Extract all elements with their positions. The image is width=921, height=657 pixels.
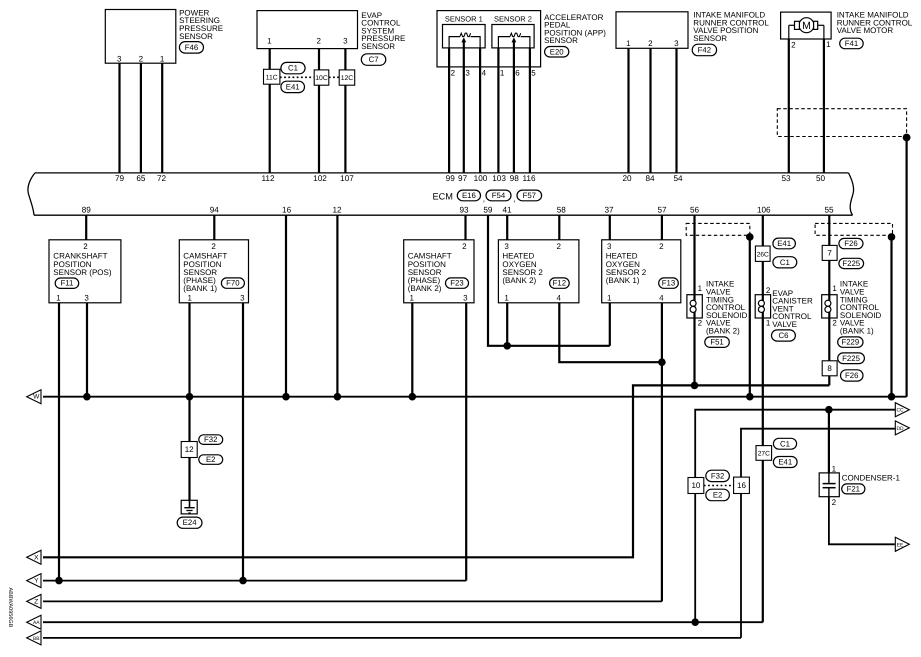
svg-text:C7: C7: [369, 55, 379, 64]
svg-text:2: 2: [211, 242, 216, 251]
svg-text:1: 1: [826, 40, 831, 49]
svg-text:65: 65: [136, 174, 146, 183]
svg-text:F26: F26: [845, 371, 858, 380]
svg-text:10C: 10C: [315, 75, 328, 82]
svg-text:72: 72: [157, 174, 167, 183]
svg-text:1: 1: [267, 36, 272, 45]
svg-text:59: 59: [483, 205, 493, 214]
svg-text:103: 103: [492, 174, 506, 183]
svg-text:3: 3: [465, 69, 470, 78]
svg-text:3: 3: [84, 294, 89, 303]
svg-text:20: 20: [622, 174, 632, 183]
svg-text:41: 41: [502, 205, 512, 214]
svg-text:1: 1: [832, 464, 837, 473]
svg-text:E16: E16: [462, 191, 476, 200]
svg-text:Y: Y: [34, 578, 39, 585]
svg-text:2: 2: [648, 39, 653, 48]
svg-text:84: 84: [645, 174, 655, 183]
svg-text:VALVE MOTOR: VALVE MOTOR: [837, 26, 894, 35]
svg-text:F225: F225: [842, 259, 860, 268]
svg-text:DD: DD: [896, 426, 904, 432]
svg-text:2: 2: [659, 242, 664, 251]
svg-text:16: 16: [737, 481, 746, 490]
svg-text:F32: F32: [711, 471, 724, 480]
svg-text:2: 2: [766, 286, 771, 295]
svg-text:1: 1: [698, 284, 703, 293]
svg-text:F12: F12: [553, 279, 566, 288]
svg-text:12: 12: [185, 445, 194, 454]
svg-text:SENSOR (POS): SENSOR (POS): [53, 268, 112, 277]
svg-text:93: 93: [459, 205, 469, 214]
svg-text:EE: EE: [897, 542, 904, 548]
svg-text:F13: F13: [662, 279, 675, 288]
svg-text:,: ,: [513, 195, 515, 204]
svg-text:16: 16: [282, 205, 292, 214]
svg-text:2: 2: [316, 36, 321, 45]
svg-text:F23: F23: [450, 279, 463, 288]
svg-text:8: 8: [827, 364, 832, 373]
svg-text:E2: E2: [206, 455, 216, 464]
svg-text:SENSOR: SENSOR: [179, 32, 213, 41]
svg-text:7: 7: [827, 249, 832, 258]
svg-text:Z: Z: [34, 598, 38, 605]
svg-text:12C: 12C: [341, 75, 354, 82]
svg-text:(BANK 2): (BANK 2): [408, 284, 442, 293]
svg-text:58: 58: [557, 205, 567, 214]
svg-text:SENSOR: SENSOR: [361, 42, 395, 51]
svg-text:6: 6: [515, 69, 520, 78]
svg-text:107: 107: [340, 174, 354, 183]
svg-text:(BANK 1): (BANK 1): [840, 326, 874, 335]
svg-text:94: 94: [210, 205, 220, 214]
svg-text:F51: F51: [710, 338, 723, 347]
svg-text:2: 2: [462, 242, 467, 251]
svg-text:98: 98: [510, 174, 520, 183]
svg-text:E2: E2: [713, 490, 723, 499]
svg-text:3: 3: [117, 55, 122, 64]
svg-text:ABBWA0956GB: ABBWA0956GB: [7, 588, 13, 628]
svg-text:F229: F229: [841, 338, 859, 347]
svg-text:ECM: ECM: [433, 191, 453, 201]
svg-text:F42: F42: [698, 45, 711, 54]
svg-text:3: 3: [504, 242, 509, 251]
svg-text:F70: F70: [226, 279, 240, 288]
svg-text:E24: E24: [183, 518, 198, 527]
svg-text:116: 116: [522, 174, 535, 183]
svg-text:2: 2: [139, 55, 144, 64]
svg-text:(BANK 2): (BANK 2): [706, 326, 740, 335]
svg-text:12: 12: [332, 205, 342, 214]
svg-text:C6: C6: [778, 331, 788, 340]
svg-text:3: 3: [343, 36, 348, 45]
svg-text:E20: E20: [550, 47, 565, 56]
svg-text:SENSOR: SENSOR: [544, 36, 578, 45]
svg-text:1: 1: [187, 294, 192, 303]
svg-text:F57: F57: [523, 191, 536, 200]
svg-text:4: 4: [556, 294, 561, 303]
svg-text:2: 2: [832, 319, 837, 328]
svg-text:X: X: [34, 554, 39, 561]
svg-text:89: 89: [82, 205, 92, 214]
svg-text:54: 54: [673, 174, 683, 183]
svg-text:1: 1: [409, 294, 414, 303]
svg-text:102: 102: [313, 174, 327, 183]
svg-text:11C: 11C: [266, 74, 278, 81]
svg-text:1: 1: [832, 284, 837, 293]
svg-text:AA: AA: [33, 620, 40, 626]
svg-text:79: 79: [115, 174, 125, 183]
svg-text:E41: E41: [286, 82, 300, 91]
svg-text:CC: CC: [896, 408, 904, 414]
svg-text:106: 106: [757, 205, 771, 214]
svg-text:1: 1: [626, 39, 631, 48]
svg-text:1: 1: [500, 69, 505, 78]
svg-text:3: 3: [240, 294, 245, 303]
svg-text:2: 2: [556, 242, 561, 251]
svg-text:1: 1: [766, 319, 771, 328]
svg-text:F225: F225: [842, 354, 860, 363]
svg-text:26C: 26C: [757, 251, 769, 258]
svg-text:C1: C1: [780, 439, 790, 448]
svg-text:F54: F54: [492, 191, 506, 200]
svg-text:3: 3: [674, 39, 679, 48]
svg-text:100: 100: [474, 174, 488, 183]
svg-text:27C: 27C: [758, 451, 770, 458]
svg-text:4: 4: [482, 69, 487, 78]
svg-text:1: 1: [504, 294, 509, 303]
svg-text:37: 37: [604, 205, 614, 214]
svg-text:1: 1: [160, 55, 165, 64]
svg-text:53: 53: [781, 174, 791, 183]
svg-text:F46: F46: [185, 43, 198, 52]
svg-text:97: 97: [458, 174, 468, 183]
svg-text:55: 55: [824, 205, 834, 214]
svg-text:C1: C1: [780, 258, 790, 267]
svg-text:BB: BB: [33, 636, 40, 642]
svg-text:57: 57: [657, 205, 667, 214]
svg-text:E41: E41: [778, 458, 792, 467]
svg-text:(BANK 1): (BANK 1): [606, 276, 640, 285]
svg-text:5: 5: [531, 69, 536, 78]
svg-text:F32: F32: [204, 435, 217, 444]
svg-text:F11: F11: [61, 279, 74, 288]
svg-text:2: 2: [791, 41, 796, 50]
svg-text:3: 3: [463, 294, 468, 303]
svg-text:F21: F21: [847, 484, 860, 493]
svg-text:W: W: [33, 394, 40, 401]
svg-text:112: 112: [261, 174, 274, 183]
svg-text:C1: C1: [288, 64, 298, 73]
svg-text:4: 4: [659, 294, 664, 303]
svg-text:2: 2: [698, 319, 703, 328]
svg-text:SENSOR 1: SENSOR 1: [445, 14, 483, 23]
svg-text:VALVE: VALVE: [772, 320, 797, 329]
svg-text:1: 1: [56, 294, 61, 303]
svg-text:(BANK 1): (BANK 1): [183, 284, 217, 293]
svg-text:2: 2: [832, 498, 837, 507]
svg-text:M: M: [802, 20, 811, 32]
svg-text:(BANK 2): (BANK 2): [502, 276, 536, 285]
svg-text:E41: E41: [777, 239, 791, 248]
svg-text:3: 3: [607, 242, 612, 251]
svg-text:,: ,: [483, 195, 485, 204]
svg-text:F26: F26: [844, 239, 857, 248]
svg-text:2: 2: [83, 242, 88, 251]
svg-text:SENSOR 2: SENSOR 2: [494, 14, 532, 23]
svg-text:1: 1: [607, 294, 612, 303]
svg-text:SENSOR: SENSOR: [693, 34, 727, 43]
svg-text:CONDENSER-1: CONDENSER-1: [842, 474, 901, 483]
svg-text:F41: F41: [845, 39, 858, 48]
svg-text:99: 99: [446, 174, 456, 183]
svg-text:2: 2: [451, 69, 456, 78]
svg-text:50: 50: [816, 174, 826, 183]
svg-text:10: 10: [691, 481, 700, 490]
svg-text:56: 56: [690, 205, 700, 214]
